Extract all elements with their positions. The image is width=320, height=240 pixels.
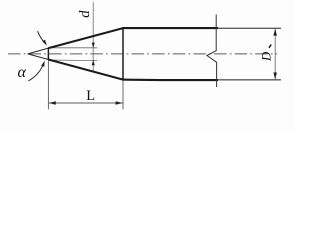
svg-text:D: D: [260, 51, 274, 62]
svg-text:α: α: [18, 64, 27, 81]
svg-text:L: L: [86, 88, 95, 104]
